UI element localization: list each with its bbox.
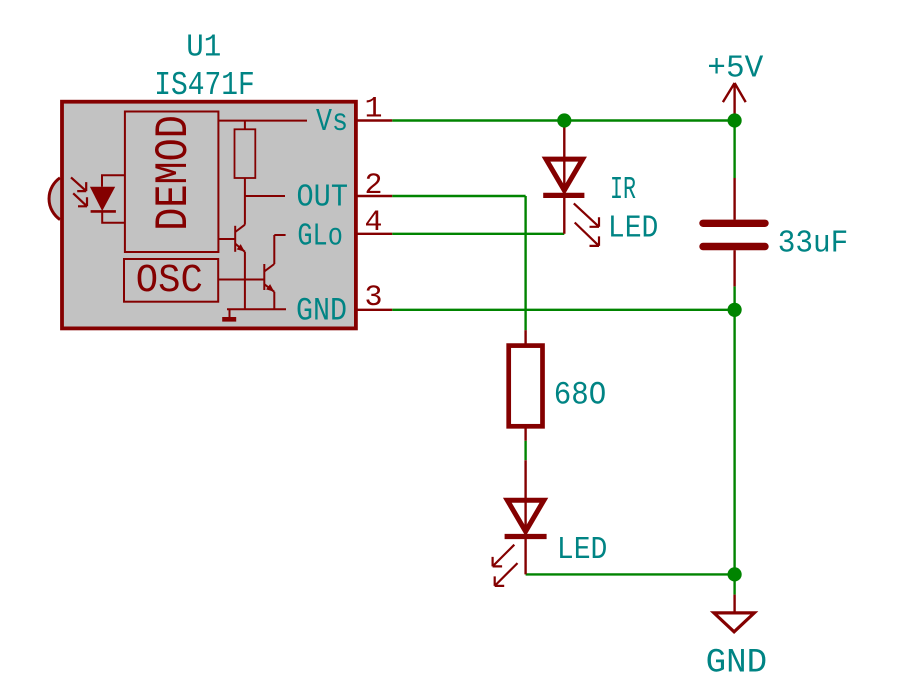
svg-text:OSC: OSC xyxy=(136,259,203,304)
wire cap bottom to gnd net xyxy=(733,286,735,309)
+5V power symbol xyxy=(723,83,746,121)
internal OUT tap wire xyxy=(245,195,285,197)
internal gnd bar xyxy=(222,317,236,322)
pin 2 OUT stub xyxy=(356,195,392,197)
svg-text:IS471F: IS471F xyxy=(154,67,255,105)
svg-text:GLo: GLo xyxy=(297,220,343,255)
Q2 emitter arrowhead xyxy=(266,284,274,292)
capacitor C1 top plate xyxy=(703,220,765,227)
svg-text:LED: LED xyxy=(557,533,608,568)
LED D2 cathode bar xyxy=(505,534,547,539)
svg-text:1: 1 xyxy=(365,93,383,127)
photodiode D-int cathode wire xyxy=(102,211,125,222)
GND triangle xyxy=(714,613,754,632)
IR LED emission arrow 2 xyxy=(575,223,599,246)
IR LED D1 cathode bar xyxy=(543,193,584,198)
wire Q2 emitter to gnd rail xyxy=(273,292,275,310)
wire LED bottom horizontal xyxy=(526,573,735,575)
junction node GND-C1 xyxy=(728,303,742,317)
wire gnd column lower xyxy=(733,310,735,575)
wire GLo net xyxy=(392,233,564,235)
IR LED D1 triangle xyxy=(546,159,583,190)
IC U1 body xyxy=(62,102,356,329)
wire R-int top xyxy=(244,121,246,130)
photodiode incoming light arrow 2 xyxy=(73,193,87,206)
svg-text:DEMOD: DEMOD xyxy=(148,115,200,231)
wire OUT net horizontal xyxy=(392,195,525,197)
photodiode D-int cathode bar xyxy=(91,210,116,213)
resistor R1 top pin xyxy=(524,330,526,345)
OSC block box xyxy=(124,259,218,302)
svg-text:IR: IR xyxy=(610,173,636,208)
svg-text:4: 4 xyxy=(365,206,383,240)
LED D2 emission arrow 2 xyxy=(495,563,518,586)
wire Vs net xyxy=(392,119,734,121)
lens arc on left edge of U1 xyxy=(49,178,60,220)
LED D2 pins wire xyxy=(524,460,526,574)
DEMOD block box xyxy=(125,112,218,253)
capacitor C1 bottom pin xyxy=(733,250,735,286)
wire Q1 emitter to gnd rail xyxy=(244,252,246,309)
pin 1 Vs stub xyxy=(356,119,392,121)
junction node Vs-C1 xyxy=(728,113,742,127)
pin 4 GLo stub xyxy=(356,233,392,235)
transistor Q2-int xyxy=(264,235,285,292)
junction node Vs-IRLED xyxy=(557,113,571,127)
internal Vs rail wire xyxy=(218,120,307,122)
capacitor C1 bottom plate xyxy=(703,243,765,250)
svg-text:+5V: +5V xyxy=(707,52,763,87)
svg-text:LED: LED xyxy=(608,211,659,246)
resistor R1 body xyxy=(509,346,543,427)
junction node GND-LED xyxy=(728,567,742,581)
capacitor C1 top pin xyxy=(733,178,735,220)
pin 3 GND stub xyxy=(356,309,392,311)
svg-text:GND: GND xyxy=(296,293,347,330)
GND power symbol xyxy=(733,595,735,613)
Q1 emitter arrowhead xyxy=(237,244,245,252)
wire +5V column upper xyxy=(733,121,735,179)
photodiode D-int anode wire xyxy=(102,175,125,187)
photodiode incoming light arrow 1 xyxy=(71,177,86,191)
svg-text:33uF: 33uF xyxy=(778,226,849,261)
IR LED emission arrow 1 xyxy=(574,203,599,226)
wire junction to gnd symbol xyxy=(733,574,735,594)
svg-text:68O: 68O xyxy=(554,376,607,413)
IR LED D1 pins wire xyxy=(563,121,565,234)
svg-text:OUT: OUT xyxy=(297,181,349,216)
svg-text:Vs: Vs xyxy=(316,105,348,140)
wire R-int bottom to Q1 collector xyxy=(244,178,246,225)
photodiode D-int triangle xyxy=(90,187,115,211)
wire OUT net vertical xyxy=(524,196,526,330)
LED D2 triangle xyxy=(507,500,544,531)
internal GND rail xyxy=(227,308,286,310)
svg-text:GND: GND xyxy=(706,644,768,682)
svg-text:U1: U1 xyxy=(186,31,221,66)
wire GND net pin3 xyxy=(392,309,734,311)
svg-text:3: 3 xyxy=(365,281,383,315)
resistor R1 bottom pin xyxy=(524,426,526,440)
LED D2 emission arrow 1 xyxy=(493,545,515,567)
wire OSC to Q2 base xyxy=(218,279,264,281)
svg-text:2: 2 xyxy=(365,169,383,203)
transistor Q1-int xyxy=(218,225,245,252)
wire resistor to LED xyxy=(524,441,526,461)
internal gnd stub xyxy=(229,309,231,317)
internal resistor R-int xyxy=(235,129,256,178)
